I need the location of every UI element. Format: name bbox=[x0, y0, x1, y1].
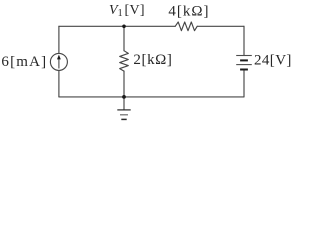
wire: left branch lower bbox=[58, 70, 60, 97]
svg-text:V1 [V]: V1 [V] bbox=[109, 3, 145, 19]
wire: right branch lower bbox=[243, 71, 245, 97]
current source I1 arrow head bbox=[57, 55, 61, 60]
current source I1 arrow shaft bbox=[58, 59, 60, 69]
node V1 junction dot bbox=[122, 25, 126, 29]
bottom junction dot bbox=[122, 95, 126, 99]
wire: middle branch lower bbox=[123, 71, 125, 97]
resistor R1 4[kOhm] zigzag body bbox=[175, 22, 197, 31]
wire: middle branch upper bbox=[123, 26, 125, 50]
battery V2 long plate (inner, +) bbox=[236, 64, 252, 66]
ground bar 3 (narrowest) bbox=[121, 118, 126, 120]
wire: right branch upper bbox=[243, 26, 245, 55]
resistor R2 2[kOhm] zigzag body bbox=[120, 51, 129, 71]
ground bar 1 (widest) bbox=[117, 109, 130, 111]
wire: bottom wire bbox=[59, 96, 244, 98]
current source I1 circle bbox=[50, 53, 67, 70]
battery V2 24V: long plate (top, +) bbox=[236, 55, 252, 57]
ground bar 2 bbox=[120, 114, 128, 116]
svg-text:2[kΩ]: 2[kΩ] bbox=[133, 52, 172, 68]
svg-text:24[V]: 24[V] bbox=[254, 53, 292, 69]
battery V2 short thick plate bbox=[240, 59, 248, 61]
wire: top wire right segment bbox=[197, 25, 244, 27]
battery V2 short thick plate (bottom, -) bbox=[240, 69, 248, 71]
svg-text:4[kΩ]: 4[kΩ] bbox=[168, 3, 209, 19]
svg-text:6[mA]: 6[mA] bbox=[1, 54, 47, 70]
wire: left branch upper bbox=[58, 26, 60, 53]
wire: top wire left segment (node A to top-left corner) bbox=[59, 25, 175, 27]
ground lead wire bbox=[123, 97, 125, 110]
